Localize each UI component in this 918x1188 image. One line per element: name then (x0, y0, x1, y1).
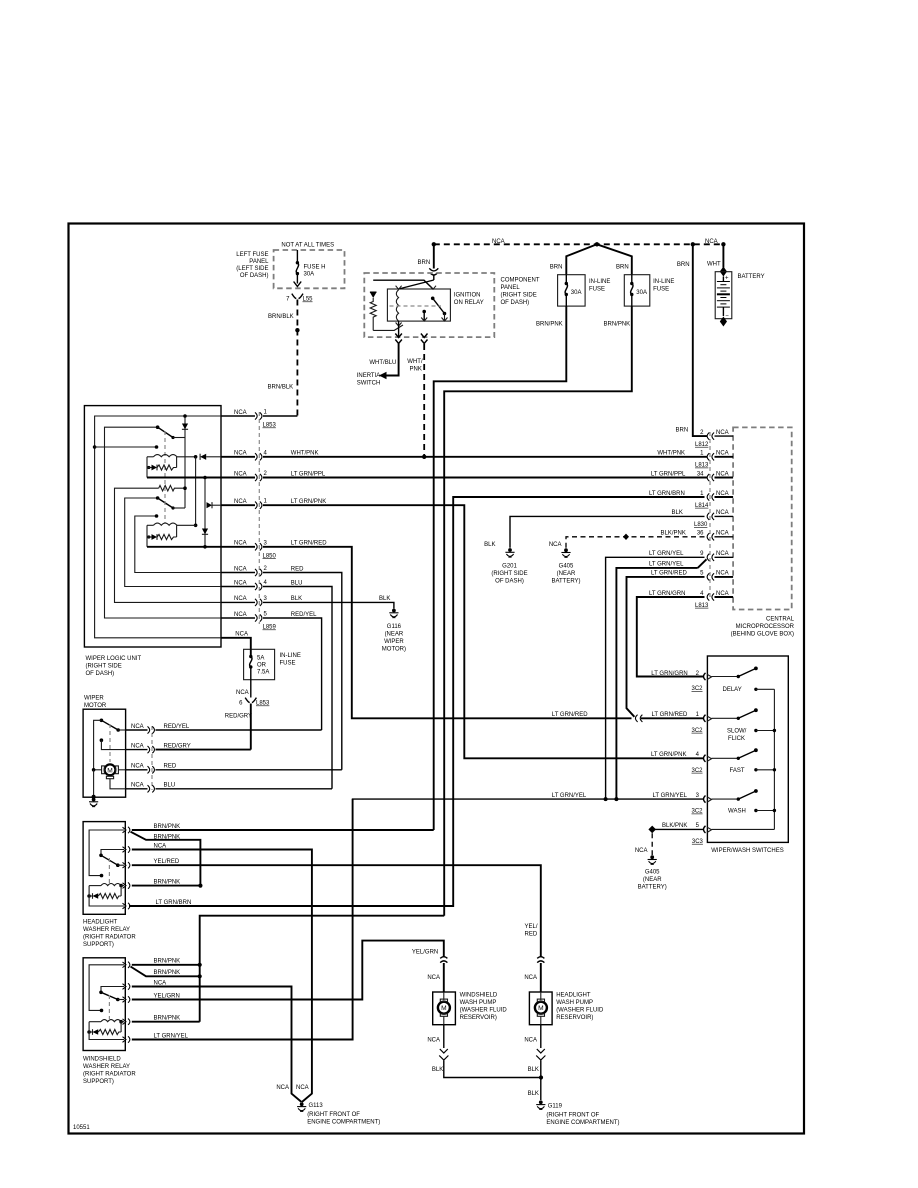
wire RED/GRY to motor (250, 704, 252, 750)
svg-text:BRN/PNK: BRN/PNK (154, 879, 181, 885)
headlight pump motor M (540, 992, 542, 1000)
switch common bus (773, 689, 775, 829)
svg-text:RESERVOIR): RESERVOIR) (556, 1015, 593, 1021)
svg-text:−: − (725, 314, 729, 320)
svg-text:IN-LINE: IN-LINE (589, 279, 610, 285)
svg-text:NCA: NCA (716, 510, 729, 516)
connector L853 arcs (245, 698, 250, 703)
svg-text:BLK: BLK (379, 596, 390, 602)
svg-text:LT GRN/YEL: LT GRN/YEL (552, 793, 587, 799)
svg-text:LT GRN/YEL: LT GRN/YEL (649, 551, 684, 557)
svg-text:RED/YEL: RED/YEL (291, 612, 317, 618)
svg-text:FUSE: FUSE (280, 661, 296, 667)
svg-text:YEL/: YEL/ (525, 924, 538, 930)
svg-text:LT GRN/BRN: LT GRN/BRN (156, 900, 192, 906)
svg-text:NCA: NCA (236, 690, 249, 696)
svg-text:LT GRN/PNK: LT GRN/PNK (651, 752, 686, 758)
wire left brush to common (94, 769, 102, 771)
fuse H 30A symbol (296, 261, 299, 264)
wire BRN from NCA bus down to microprocessor (693, 244, 707, 436)
svg-text:(RIGHT SIDE: (RIGHT SIDE (86, 664, 122, 670)
svg-text:(RIGHT RADIATOR: (RIGHT RADIATOR (83, 1072, 136, 1078)
node splice on BRN/BLK (295, 328, 299, 332)
FAST switch (712, 757, 739, 759)
relay linkage dashed (108, 858, 110, 883)
svg-text:NCA: NCA (716, 430, 729, 436)
svg-text:NCA: NCA (131, 743, 144, 749)
svg-text:BRN/PNK: BRN/PNK (154, 824, 181, 830)
svg-text:LT GRN/PNK: LT GRN/PNK (291, 499, 326, 505)
svg-text:(RIGHT FRONT OF: (RIGHT FRONT OF (307, 1112, 360, 1118)
row BRN/PNK pin4 (132, 1021, 200, 1023)
pin chevron right switch pin (430, 286, 436, 290)
pin chevrons at relay dashed box bottom (395, 334, 402, 338)
diode suppression in relay (370, 292, 377, 298)
vertical tie with diodes D3 D4 (204, 478, 206, 547)
svg-text:NCA: NCA (234, 541, 247, 547)
svg-text:10551: 10551 (73, 1125, 90, 1131)
headlight washer relay box (83, 822, 125, 915)
diode D4 vertical (202, 529, 208, 535)
svg-text:BRN/BLK: BRN/BLK (268, 314, 294, 320)
svg-text:(WASHER FLUID: (WASHER FLUID (460, 1007, 508, 1013)
wire BLK bus to resistor R2 (115, 488, 222, 602)
svg-text:NCA: NCA (716, 491, 729, 497)
svg-text:MOTOR: MOTOR (84, 703, 107, 709)
row6 RED wire to wiper motor (221, 572, 255, 574)
svg-text:NCA: NCA (716, 591, 729, 597)
DELAY row connector (704, 673, 706, 680)
svg-text:WINDSHIELD: WINDSHIELD (460, 992, 498, 998)
svg-text:NCA: NCA (234, 580, 247, 586)
SLOW/FLICK switch (712, 717, 739, 719)
row LT GRN/BRN pin5 from microprocessor (132, 905, 453, 907)
relay coil winding (396, 290, 398, 321)
wiper logic unit box (84, 406, 221, 647)
BLK/PNK return row (712, 828, 775, 830)
svg-text:BLK: BLK (528, 1067, 539, 1073)
motor row RED/YEL (126, 729, 148, 731)
svg-text:RED/GRY: RED/GRY (164, 743, 191, 749)
svg-text:BLK/PNK: BLK/PNK (662, 823, 687, 829)
wire from NCA bus to in-line fuse 1 (566, 244, 597, 274)
FAST row connector (704, 755, 706, 762)
svg-text:WIPER/WASH SWITCHES: WIPER/WASH SWITCHES (711, 848, 783, 854)
wire BRN from NCA bus to ignition relay (433, 244, 435, 268)
relay suppression diode and resistor (120, 1022, 122, 1032)
svg-text:PANEL: PANEL (501, 285, 521, 291)
svg-text:WHT/PNK: WHT/PNK (657, 451, 685, 457)
row1 NCA wire to BRN/BLK riser (221, 415, 255, 417)
relay coil return to pin5 (89, 886, 124, 906)
svg-text:NCA: NCA (234, 499, 247, 505)
svg-text:BRN/PNK: BRN/PNK (604, 321, 631, 327)
svg-text:NCA: NCA (234, 471, 247, 477)
relay linkage dashed (108, 995, 110, 1019)
svg-text:FUSE: FUSE (653, 287, 669, 293)
border frame (69, 224, 805, 1134)
svg-text:M: M (441, 1005, 447, 1012)
uP row10 LT GRN/GRN pin 4 wire to DELAY switch (637, 597, 705, 677)
svg-text:L859: L859 (263, 625, 277, 631)
wire from suppression branch crossing to switch pin (373, 280, 433, 289)
fuse 2 element 30A (631, 275, 633, 284)
svg-text:L850: L850 (263, 553, 277, 559)
row4 LT GRN/PNK wire to FAST switch (221, 504, 255, 506)
node junction on NCA bus above BRN drop (691, 242, 695, 246)
svg-text:NCA: NCA (131, 764, 144, 770)
relay switch pivot and arm (101, 987, 124, 993)
motor row RED/GRY (126, 749, 148, 751)
relay K2 suppression branch resistor and diode (146, 525, 148, 547)
svg-text:YEL/RED: YEL/RED (154, 859, 180, 865)
relay pin symbols (123, 962, 130, 968)
svg-text:L813: L813 (695, 463, 709, 469)
relay coil return to pin5 (89, 1022, 124, 1040)
svg-text:36: 36 (697, 531, 704, 537)
svg-text:LT GRN/RED: LT GRN/RED (291, 541, 327, 547)
svg-text:WASH PUMP: WASH PUMP (460, 1000, 497, 1006)
svg-text:NCA: NCA (276, 1085, 289, 1091)
wire coil bottom to WHT/BLU exit (398, 321, 400, 337)
svg-text:LT GRN/PPL: LT GRN/PPL (291, 471, 326, 477)
svg-text:NCA: NCA (427, 975, 440, 981)
wire BRN/BLK dashed from L55 down to wiper logic unit (296, 300, 298, 417)
svg-text:LT GRN/YEL: LT GRN/YEL (154, 1033, 189, 1039)
svg-text:ENGINE COMPARTMENT): ENGINE COMPARTMENT) (546, 1120, 619, 1126)
wire WHT/BLU to inertia switch (386, 344, 399, 376)
motor connector dashed line (151, 726, 153, 790)
ground G119 (536, 1100, 545, 1109)
svg-text:WASHER RELAY: WASHER RELAY (83, 1064, 130, 1070)
row3 LT GRN/PPL wire to microprocessor (147, 477, 255, 479)
relay K1 coil (147, 456, 154, 458)
ground at wiper motor case (89, 798, 98, 807)
svg-text:LT GRN/RED: LT GRN/RED (651, 571, 687, 577)
wire BRN/PNK from fuse 1 down-left to headlight washer relay (434, 306, 567, 830)
svg-text:SUPPORT): SUPPORT) (83, 942, 114, 948)
row BRN/PNK pin1 (132, 964, 200, 966)
svg-text:(RIGHT SIDE: (RIGHT SIDE (491, 571, 527, 577)
svg-text:5A: 5A (257, 656, 264, 662)
fuse 1 element 30A (565, 275, 567, 284)
row YEL/RED pin3 to headlight wash pump (132, 865, 541, 957)
motor row RED (126, 769, 148, 771)
motor M armature (105, 764, 116, 775)
diode D2 to WHT/PNK row (200, 454, 206, 460)
row9 RED/YEL wire to wiper motor (221, 617, 255, 619)
node junction on NCA bus above relay (432, 242, 436, 246)
svg-text:LT GRN/PPL: LT GRN/PPL (651, 471, 686, 477)
battery (720, 267, 727, 277)
svg-text:(BEHIND GLOVE BOX): (BEHIND GLOVE BOX) (731, 632, 794, 638)
svg-text:NOT AT ALL TIMES: NOT AT ALL TIMES (281, 243, 334, 249)
svg-text:ENGINE COMPARTMENT): ENGINE COMPARTMENT) (307, 1120, 380, 1126)
svg-text:BATTERY: BATTERY (738, 274, 765, 280)
ground G201 (505, 548, 514, 557)
svg-text:G201: G201 (502, 564, 517, 570)
diode D3 to LT GRN/PNK row (207, 502, 213, 508)
svg-text:BLK: BLK (291, 596, 302, 602)
svg-text:OF DASH): OF DASH) (86, 671, 115, 677)
svg-text:BRN: BRN (550, 264, 563, 270)
svg-text:NCA: NCA (234, 566, 247, 572)
wire bottom brush to BLU row (110, 779, 126, 789)
wire from NCA bus to in-line fuse 2 (597, 244, 632, 274)
ground G405 near battery (lower) (648, 855, 657, 864)
svg-text:NCA: NCA (524, 1038, 537, 1044)
connector arcs on headlight pump feed (537, 957, 544, 959)
svg-text:LT GRN/YEL: LT GRN/YEL (649, 562, 684, 568)
svg-text:NCA: NCA (427, 1038, 440, 1044)
svg-text:INERTIA: INERTIA (357, 373, 381, 379)
pin chevron coil bottom (396, 323, 402, 327)
svg-text:RED: RED (291, 566, 304, 572)
windshield washer relay box (83, 958, 125, 1051)
svg-text:NCA: NCA (131, 783, 144, 789)
svg-text:LT GRN/GRN: LT GRN/GRN (649, 591, 685, 597)
svg-text:MICROPROCESSOR: MICROPROCESSOR (736, 624, 795, 630)
svg-text:BLK/PNK: BLK/PNK (661, 531, 686, 537)
park switch alternate contact (100, 738, 104, 742)
svg-text:WIPER: WIPER (84, 696, 104, 702)
svg-text:M: M (538, 1005, 544, 1012)
windshield pump motor M (443, 992, 445, 1000)
svg-text:WIPER LOGIC UNIT: WIPER LOGIC UNIT (86, 656, 142, 662)
node K1 output (194, 455, 198, 459)
row2 WHT/PNK wire to microprocessor (221, 456, 255, 458)
svg-text:BATTERY): BATTERY) (638, 885, 667, 891)
svg-text:LEFT FUSE: LEFT FUSE (236, 252, 268, 258)
uP row2 WHT/PNK pin 1 (707, 453, 714, 460)
svg-text:(NEAR: (NEAR (643, 877, 662, 883)
svg-text:3C2: 3C2 (692, 768, 704, 774)
row BRN/PNK pin4 (132, 885, 201, 887)
ignition on relay dashed box (component panel) (364, 273, 494, 337)
relay suppression diode and resistor (120, 886, 122, 896)
svg-text:L853: L853 (256, 701, 270, 707)
svg-text:30A: 30A (571, 290, 582, 296)
svg-text:NCA: NCA (154, 843, 167, 849)
switch 1 pivot and arm (156, 425, 160, 429)
svg-text:BRN/PNK: BRN/PNK (154, 834, 181, 840)
node WHT/PNK at relay drop (422, 455, 426, 459)
svg-text:M: M (107, 767, 113, 774)
interior: NCA bus wire from row1 to bottom NCA row (95, 416, 221, 638)
SLOW/FLICK row connector with in-line arcs (635, 715, 642, 722)
ground G113 (297, 1102, 306, 1111)
svg-text:IN-LINE: IN-LINE (653, 279, 674, 285)
wire headlight pump return (540, 1025, 542, 1048)
svg-text:(RIGHT SIDE: (RIGHT SIDE (501, 293, 537, 299)
svg-text:SLOW/: SLOW/ (727, 729, 747, 735)
splice diamond on BLK/PNK (648, 826, 656, 834)
svg-text:FAST: FAST (730, 768, 745, 774)
svg-text:FUSE: FUSE (589, 287, 605, 293)
resistor suppression in relay (370, 298, 376, 330)
fuse element (250, 649, 252, 656)
svg-text:NCA: NCA (234, 451, 247, 457)
svg-text:OR: OR (257, 663, 267, 669)
row LT GRN/YEL pin5 from WASH switch (132, 799, 353, 1039)
uP row8 LT GRN/YEL second wire to WASH switch (616, 568, 697, 799)
row BRN/PNK pin2 jumper (131, 967, 200, 977)
svg-text:BRN/PNK: BRN/PNK (154, 970, 181, 976)
svg-text:L814: L814 (695, 503, 709, 509)
relay pin symbols (123, 827, 130, 833)
svg-text:OF DASH): OF DASH) (240, 273, 269, 279)
pin chevron left coil pin (396, 286, 402, 290)
row BRN/PNK pin1 from in-line fuse 1 (132, 829, 434, 831)
svg-text:+: + (725, 276, 729, 282)
svg-text:(WASHER FLUID: (WASHER FLUID (556, 1007, 604, 1013)
svg-text:RED/GRY: RED/GRY (225, 714, 252, 720)
in-line fuse 1 box (558, 275, 586, 306)
in-line fuse 2 box (624, 275, 650, 306)
svg-text:G113: G113 (309, 1103, 324, 1109)
windshield wash pump box (433, 992, 456, 1025)
wiper motor box (83, 709, 126, 797)
svg-text:L812: L812 (695, 442, 709, 448)
svg-text:NCA: NCA (716, 531, 729, 537)
svg-text:OF DASH): OF DASH) (495, 579, 524, 585)
relay switch pivot and arm (101, 850, 124, 856)
svg-text:(NEAR: (NEAR (385, 632, 404, 638)
svg-text:NCA: NCA (492, 239, 505, 245)
svg-text:RED: RED (525, 932, 538, 938)
wire to switch 1 rest contact (95, 446, 157, 448)
svg-text:G405: G405 (559, 564, 574, 570)
svg-text:WASH: WASH (728, 809, 746, 815)
relay interior: pin1 frame wire (89, 830, 124, 876)
node on NCA bus at switch branch (93, 445, 97, 449)
svg-text:IN-LINE: IN-LINE (280, 653, 301, 659)
uP row6 BLK/PNK pin 36 dashed wire to ground G405 (566, 537, 705, 548)
svg-text:NCA: NCA (235, 632, 248, 638)
uP row3 LT GRN/PPL pin 34 (707, 474, 714, 481)
svg-text:BRN/PNK: BRN/PNK (154, 959, 181, 965)
svg-text:LT GRN/RED: LT GRN/RED (652, 712, 688, 718)
svg-text:BRN: BRN (677, 262, 690, 268)
motor row BLU (126, 788, 148, 790)
ground G116 (389, 609, 398, 618)
svg-text:WASHER RELAY: WASHER RELAY (83, 927, 130, 933)
headlight wash pump box (529, 992, 552, 1025)
row10 NCA wire to in-line fuse (221, 638, 251, 650)
svg-text:LT GRN/YEL: LT GRN/YEL (653, 793, 688, 799)
relay mechanical linkage dashed (390, 305, 442, 307)
svg-text:DELAY: DELAY (723, 687, 742, 693)
relay normally-open contact to WHT/PNK pin (422, 310, 426, 314)
left fuse panel dashed box (274, 250, 345, 288)
svg-text:PNK: PNK (410, 367, 422, 373)
vertical tie K1 to K2 (195, 457, 197, 526)
svg-text:BLU: BLU (164, 783, 176, 789)
row NCA pin2 to ground G113 (132, 987, 302, 1103)
svg-text:SUPPORT): SUPPORT) (83, 1079, 114, 1085)
wiper/wash switches box (707, 656, 788, 842)
svg-text:RESERVOIR): RESERVOIR) (460, 1015, 497, 1021)
svg-text:YEL/GRN: YEL/GRN (154, 993, 180, 999)
diode D1 (182, 424, 188, 430)
central microprocessor dashed box (733, 427, 792, 609)
mechanical linkage dashed (164, 431, 166, 523)
svg-text:COMPONENT: COMPONENT (501, 278, 540, 284)
svg-text:BLU: BLU (291, 580, 303, 586)
svg-text:WASH PUMP: WASH PUMP (556, 1000, 593, 1006)
relay K1 suppression branch resistor and diode (146, 457, 148, 478)
wire BRN entry into relay with crossover to coil pin (433, 276, 435, 281)
svg-text:WHT: WHT (707, 261, 721, 267)
svg-text:L853: L853 (263, 423, 277, 429)
wire WHT from NCA bus to battery (722, 244, 724, 267)
DELAY switch (712, 676, 739, 678)
svg-text:LT GRN/GRN: LT GRN/GRN (651, 671, 687, 677)
svg-text:NCA: NCA (296, 1085, 309, 1091)
svg-text:BRN: BRN (418, 260, 431, 266)
wire suppression branch bottom to coil exit (373, 325, 403, 330)
svg-text:BLK: BLK (484, 542, 495, 548)
row5 LT GRN/RED wire to SLOW switch (147, 546, 255, 548)
svg-text:NCA: NCA (549, 542, 562, 548)
splice diamond on BLK/PNK (623, 534, 629, 540)
svg-text:WHT/: WHT/ (407, 359, 423, 365)
svg-text:BRN: BRN (676, 428, 689, 434)
svg-text:HEADLIGHT: HEADLIGHT (556, 992, 591, 998)
wire into fuse H (296, 250, 298, 263)
row NCA pin2 to ground G113 (132, 850, 312, 1103)
wire windshield pump return (443, 1025, 445, 1048)
row7 BLU wire to wiper motor (221, 586, 255, 588)
svg-text:BRN: BRN (616, 264, 629, 270)
motor linkage dashed (109, 724, 111, 762)
svg-text:3C2: 3C2 (692, 809, 704, 815)
svg-text:(LEFT SIDE: (LEFT SIDE (236, 266, 268, 272)
svg-text:L830: L830 (694, 522, 708, 528)
svg-text:FLICK: FLICK (728, 736, 745, 742)
svg-text:3C3: 3C3 (692, 839, 704, 845)
node junction on NCA bus above battery (721, 242, 725, 246)
relay inner contact box (387, 289, 450, 321)
svg-text:NCA: NCA (234, 596, 247, 602)
svg-text:L55: L55 (303, 297, 314, 303)
relay switch pivot and arm (431, 297, 435, 301)
connector arcs on windshield pump feed (440, 957, 447, 959)
WASH row wire from LT GRN/YEL riser (352, 798, 704, 800)
vertical tie wire with diode D1 (184, 416, 186, 508)
svg-text:WINDSHIELD: WINDSHIELD (83, 1057, 121, 1063)
WASH switch (712, 798, 739, 800)
uP row4 LT GRN/BRN pin 1 wire to headlight washer relay (129, 497, 705, 906)
svg-text:7.5A: 7.5A (257, 670, 269, 676)
svg-text:NCA: NCA (131, 724, 144, 730)
resistor R2 (159, 485, 185, 491)
connector arcs at relay feed (429, 268, 438, 271)
svg-text:NCA: NCA (234, 410, 247, 416)
svg-text:BRN/PNK: BRN/PNK (154, 1016, 181, 1022)
svg-text:NCA: NCA (635, 848, 648, 854)
svg-text:(RIGHT RADIATOR: (RIGHT RADIATOR (83, 935, 136, 941)
svg-text:(NEAR: (NEAR (557, 571, 576, 577)
svg-text:3C2: 3C2 (692, 686, 704, 692)
svg-text:OF DASH): OF DASH) (501, 300, 530, 306)
row8 BLK wire to ground G116 (221, 601, 255, 603)
wire right brush to RED row (118, 769, 125, 771)
in-line fuse box (244, 649, 275, 679)
svg-text:BRN/BLK: BRN/BLK (268, 385, 294, 391)
switch 2 pivot and arm (156, 496, 160, 500)
svg-text:WIPER: WIPER (384, 639, 404, 645)
